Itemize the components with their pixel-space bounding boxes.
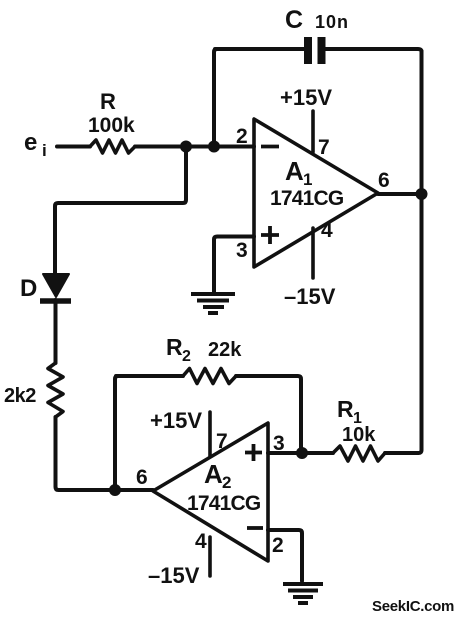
svg-text:2k2: 2k2 — [4, 385, 36, 407]
node input junction 2 — [208, 141, 220, 153]
svg-text:2: 2 — [222, 473, 231, 492]
op-amp A2 plus input symbol — [245, 444, 262, 461]
wire A2 pin7 +15V — [208, 412, 212, 456]
svg-text:R: R — [166, 334, 183, 360]
op-amp A1 plus input symbol — [261, 226, 279, 244]
diode D body — [43, 274, 69, 297]
wire feedback up from output node — [115, 376, 118, 490]
wire A2 pin4 -15V — [208, 537, 212, 576]
svg-text:3: 3 — [236, 239, 248, 262]
wire 2k2 down to A2 output line — [56, 417, 154, 490]
svg-text:7: 7 — [318, 136, 330, 159]
node input junction 1 — [180, 141, 192, 153]
wire feedback top to R2 — [116, 376, 301, 453]
wire input junction up to top rail — [214, 49, 217, 147]
svg-text:6: 6 — [136, 466, 148, 489]
resistor R1 zigzag — [333, 446, 385, 461]
op-amp A1 triangle — [254, 119, 378, 267]
svg-text:–15V: –15V — [284, 284, 336, 309]
op-amp A1 minus input symbol — [261, 145, 279, 149]
ground below A2 pin 2 — [283, 584, 323, 603]
ground below A1 pin 3 — [191, 294, 235, 313]
svg-text:i: i — [42, 141, 47, 160]
svg-text:A: A — [285, 156, 304, 186]
svg-text:C: C — [285, 6, 303, 34]
svg-text:+15V: +15V — [280, 85, 332, 110]
resistor R zigzag — [90, 140, 135, 153]
svg-text:1741CG: 1741CG — [187, 492, 261, 515]
wire A1 pin3 to ground — [214, 237, 254, 293]
svg-text:e: e — [24, 129, 37, 156]
svg-text:6: 6 — [378, 169, 390, 192]
svg-text:–15V: –15V — [148, 563, 200, 588]
svg-text:22k: 22k — [208, 339, 242, 361]
wire R1 to right rail — [385, 451, 418, 455]
svg-text:2: 2 — [272, 534, 284, 557]
svg-text:7: 7 — [216, 430, 228, 453]
wire A2 pin2 to ground — [268, 530, 302, 581]
diode D cathode bar — [40, 298, 71, 304]
op-amp A2 triangle — [153, 423, 268, 561]
svg-text:2: 2 — [236, 125, 248, 148]
wire right rail — [418, 51, 422, 453]
resistor 2k2 zigzag — [48, 363, 63, 417]
wire top rail right of capacitor — [326, 49, 422, 52]
svg-text:+15V: +15V — [150, 408, 202, 433]
wire from input junction down to diode branch — [55, 147, 186, 276]
svg-text:R: R — [100, 89, 116, 114]
node A1 output — [416, 188, 428, 200]
svg-text:4: 4 — [321, 219, 333, 242]
svg-text:1741CG: 1741CG — [270, 187, 344, 210]
svg-text:2: 2 — [182, 348, 191, 365]
op-amp A2 minus input symbol — [247, 526, 263, 530]
svg-text:10n: 10n — [315, 12, 349, 32]
svg-text:A: A — [204, 459, 223, 489]
svg-text:SeekIC.com: SeekIC.com — [372, 598, 454, 615]
svg-text:10k: 10k — [342, 424, 376, 446]
svg-text:100k: 100k — [88, 114, 135, 137]
node A2 output — [109, 484, 121, 496]
capacitor C plates — [308, 37, 322, 64]
wire A1 output — [378, 192, 422, 196]
wire diode to 2k2 — [54, 300, 58, 363]
wire top rail left of capacitor — [215, 47, 304, 51]
wire input from e_i to A1 pin 2 — [57, 145, 254, 149]
svg-text:R: R — [337, 396, 354, 422]
node R1/R2/pin3 junction — [296, 447, 308, 459]
wire A2 pin3 to node — [268, 451, 333, 455]
svg-text:4: 4 — [195, 530, 207, 553]
resistor R2 zigzag — [183, 369, 236, 384]
wire A1 pin7 +15V — [311, 111, 315, 152]
svg-text:3: 3 — [273, 432, 285, 455]
wire A1 pin4 -15V — [311, 228, 315, 278]
svg-text:D: D — [20, 275, 37, 302]
